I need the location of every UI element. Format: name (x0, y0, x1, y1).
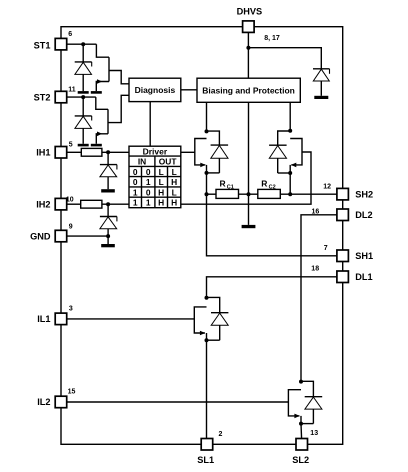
wire RC1 to center dot (239, 193, 258, 195)
wire IH1 pin to resistor (67, 151, 82, 153)
wire DL2 pin down right side (301, 215, 337, 382)
pin SL2 (296, 439, 308, 451)
transistor Q2 (ST2) (96, 97, 108, 144)
node M4 drain dot (299, 380, 303, 384)
outer IC boundary box (61, 27, 343, 445)
svg-text:IL2: IL2 (37, 397, 50, 407)
wire M3 source to SL1 pin (206, 340, 208, 444)
svg-text:0: 0 (146, 187, 151, 197)
ground bar under D4 (101, 189, 115, 192)
pin DL2 (337, 209, 349, 221)
pin IH1 (55, 147, 66, 159)
pin GND (55, 230, 66, 242)
table row 1 1 H H (133, 198, 177, 208)
svg-text:IN: IN (138, 157, 146, 167)
svg-text:1: 1 (146, 177, 151, 187)
svg-text:IH1: IH1 (36, 148, 50, 158)
ground bar under Q1 source (91, 91, 102, 94)
ground bar under D2 (78, 144, 89, 147)
svg-text:ST2: ST2 (34, 92, 51, 102)
node IH1 junction dot (106, 150, 110, 154)
pin IL2 (55, 396, 66, 408)
ground symbol below GND dot (101, 244, 115, 247)
wire GND pin to dot (67, 235, 108, 237)
svg-text:12: 12 (323, 183, 331, 190)
svg-text:Diagnosis: Diagnosis (135, 85, 176, 95)
wire dot to ground bar (107, 236, 109, 244)
svg-text:DL2: DL2 (355, 210, 372, 220)
resistor RC1 (216, 189, 239, 198)
wire IH2 pin to resistor (67, 203, 81, 205)
svg-text:L: L (159, 167, 164, 177)
wire M4 source to SL2 pin (300, 424, 303, 445)
svg-text:1: 1 (133, 198, 138, 208)
svg-text:6: 6 (68, 31, 72, 38)
ground symbol below RC junction (242, 225, 256, 228)
node M2 drain dot (288, 129, 292, 133)
svg-text:SH2: SH2 (355, 190, 373, 200)
svg-text:0: 0 (133, 167, 138, 177)
svg-text:7: 7 (324, 245, 328, 252)
node SH1/RC1 dot (205, 192, 209, 196)
svg-text:OUT: OUT (159, 157, 178, 167)
svg-text:H: H (171, 177, 177, 187)
node M3 drain dot (205, 296, 209, 300)
wire ST2 pin to Q2 drain corner (67, 96, 96, 98)
wire RC2 to SH2 pin (280, 193, 337, 195)
pin ST1 (55, 38, 66, 50)
node ST2 junction dot (81, 95, 85, 99)
svg-text:IL1: IL1 (37, 314, 50, 324)
node M2 source dot (288, 171, 292, 175)
pin IH2 (55, 198, 66, 210)
svg-text:ST1: ST1 (34, 40, 51, 50)
pin DHVS (243, 21, 255, 33)
table row 0 0 L L (133, 167, 177, 177)
svg-text:2: 2 (219, 431, 223, 438)
wire IL2 pin to M4 gate (67, 401, 289, 403)
svg-text:L: L (172, 167, 177, 177)
wire SH1 node to RC1 (207, 193, 217, 195)
low-side FET M4 (288, 381, 322, 423)
node M2 source / SH2 dot (288, 192, 292, 196)
svg-text:H: H (158, 187, 164, 197)
svg-text:Biasing and Protection: Biasing and Protection (202, 85, 295, 95)
wire Diagnosis to Biasing (181, 89, 197, 91)
ground bar under D3 (314, 96, 328, 99)
wire DHVS dot to top-right zener (248, 48, 321, 69)
node IH2 junction dot (106, 202, 110, 206)
svg-text:15: 15 (68, 388, 76, 395)
svg-text:18: 18 (311, 266, 319, 273)
svg-text:L: L (172, 187, 177, 197)
transistor Q1 (ST1) (96, 44, 109, 91)
low-side FET M3 (194, 297, 228, 340)
svg-text:9: 9 (69, 223, 73, 230)
high-side FET M2 (269, 102, 302, 173)
wire Biasing to RC junction (248, 102, 250, 225)
resistor IH2 series (81, 200, 102, 208)
node M3 source dot (205, 338, 209, 342)
table row 1 0 H L (133, 187, 177, 197)
svg-text:16: 16 (312, 209, 320, 216)
wire IH2 to M2 gate (181, 152, 311, 204)
svg-text:10: 10 (66, 196, 74, 203)
svg-text:8, 17: 8, 17 (264, 35, 280, 42)
svg-text:DHVS: DHVS (237, 6, 263, 16)
wire Q1 gate to Diagnosis (109, 71, 129, 84)
table row 0 1 L H (133, 177, 177, 187)
svg-text:C1: C1 (227, 184, 234, 190)
zener D5 (IH2 clamp) (100, 204, 117, 236)
Biasing and Protection block (197, 78, 300, 102)
pin IL1 (55, 313, 66, 325)
svg-text:11: 11 (68, 86, 76, 93)
wire M2 source down (289, 173, 291, 194)
svg-text:5: 5 (69, 141, 73, 148)
zener D2 (ST2 clamp) (75, 97, 92, 144)
pin SL1 (201, 439, 213, 451)
svg-text:H: H (171, 198, 177, 208)
Diagnosis block (129, 78, 181, 101)
pin DL1 (337, 271, 349, 283)
svg-text:3: 3 (69, 305, 73, 312)
svg-text:SL1: SL1 (197, 455, 214, 465)
svg-text:C2: C2 (269, 184, 276, 190)
svg-text:1: 1 (146, 198, 151, 208)
wire IL1 pin to M3 gate (67, 318, 195, 320)
zener D1 (ST1 clamp) (75, 44, 92, 91)
pin ST2 (55, 91, 66, 103)
node M1 source dot (205, 171, 209, 175)
node GND junction dot (106, 234, 110, 238)
wire M1 source down to SH1 node (206, 173, 208, 194)
svg-text:SH1: SH1 (355, 251, 373, 261)
zener D4 (IH1 clamp) (100, 152, 117, 189)
svg-text:L: L (159, 177, 164, 187)
svg-text:0: 0 (146, 167, 151, 177)
svg-text:DL1: DL1 (355, 272, 372, 282)
wire Driver to M1 gate (181, 151, 195, 153)
wire ST1 pin to FET drain corner (67, 43, 97, 45)
Driver block with truth table (129, 146, 181, 208)
svg-text:0: 0 (133, 177, 138, 187)
node RC center dot (247, 192, 251, 196)
pin DHVS wire down (247, 27, 249, 78)
svg-text:SL2: SL2 (292, 455, 309, 465)
svg-text:1: 1 (133, 187, 138, 197)
resistor IH1 series (81, 148, 102, 156)
svg-text:GND: GND (30, 231, 51, 241)
pin SH1 (337, 250, 349, 262)
zener D3 (DHVS clamp) (313, 69, 330, 96)
wire resistor to Driver bottom row (102, 203, 129, 205)
ground bar under D1 (78, 91, 89, 94)
svg-text:R: R (220, 178, 226, 188)
node ST1 junction dot (81, 42, 85, 46)
svg-text:R: R (261, 178, 267, 188)
ground bar under Q2 source (91, 144, 102, 147)
node M4 source dot (299, 422, 303, 426)
svg-text:13: 13 (310, 430, 318, 437)
node DHVS junction dot (246, 46, 250, 50)
svg-text:IH2: IH2 (36, 199, 50, 209)
svg-text:H: H (158, 198, 164, 208)
resistor RC2 (258, 189, 281, 198)
wire Q2 gate to Diagnosis (108, 95, 129, 122)
high-side FET M1 (195, 102, 228, 173)
wire Diagnosis to Driver (149, 102, 151, 147)
node M1 drain dot (205, 129, 209, 133)
wire DL1 pin to low-side FET M3 drain (207, 277, 338, 298)
pin SH2 (337, 188, 349, 200)
wire resistor to Driver (102, 151, 129, 153)
svg-text:Driver: Driver (143, 146, 168, 156)
wire SH1 pin to M1 source node (207, 194, 338, 256)
